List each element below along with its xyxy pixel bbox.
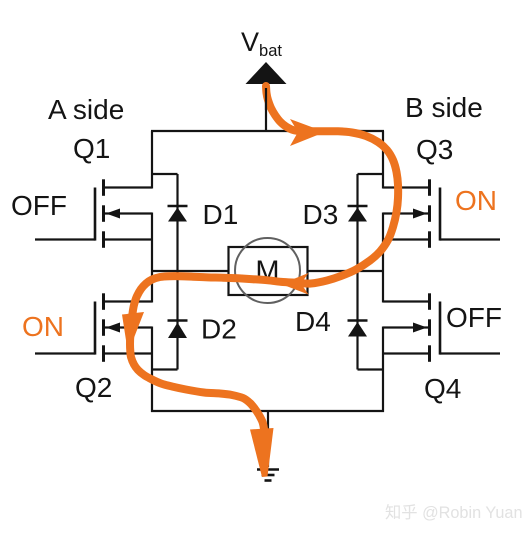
- svg-text:ON: ON: [455, 185, 497, 216]
- diode D2: [168, 321, 188, 339]
- wire: mid rail left (motor left lead): [151, 270, 229, 272]
- svg-text:ON: ON: [22, 311, 64, 342]
- wire: D1 top tee: [152, 173, 178, 175]
- wire: D1 branch vertical: [176, 174, 178, 272]
- svg-text:D2: D2: [201, 314, 237, 345]
- transistor Q3: [383, 179, 500, 248]
- svg-text:OFF: OFF: [446, 302, 502, 333]
- wire: D3 top tee: [358, 173, 384, 175]
- transistor Q2: [35, 293, 152, 362]
- node: current arrowhead on top rail: [290, 119, 325, 146]
- motor M box: [229, 247, 308, 295]
- wire: D4 bottom tee: [358, 368, 384, 370]
- wire: right vertical Q4 source to bottom rail: [382, 327, 384, 413]
- wire: D2 bottom tee: [152, 368, 178, 370]
- wire: right vertical Q3 drain: [382, 131, 384, 189]
- svg-text:OFF: OFF: [11, 190, 67, 221]
- motor M circle: [235, 238, 300, 303]
- wire: Vbat stem overlay: [265, 88, 267, 110]
- svg-text:D3: D3: [303, 199, 339, 230]
- svg-text:Q3: Q3: [416, 134, 453, 165]
- wire: left vertical Q2 source to bottom rail: [151, 327, 153, 413]
- svg-text:Vbat: Vbat: [241, 27, 282, 60]
- node: current arrowhead to ground: [250, 428, 274, 477]
- wire: left vertical node A (Q1 source to Q2 drain): [151, 213, 153, 303]
- wire: mid rail right (motor right lead): [307, 270, 384, 272]
- svg-text:Q2: Q2: [75, 372, 112, 403]
- wire: D2 branch vertical: [176, 271, 178, 370]
- diode D4: [348, 321, 368, 337]
- transistor Q4: [383, 293, 500, 362]
- wire: D3 branch vertical: [356, 174, 358, 272]
- wire: Vbat stem: [265, 83, 267, 131]
- svg-text:知乎 @Robin Yuan: 知乎 @Robin Yuan: [385, 504, 523, 522]
- svg-text:Q1: Q1: [73, 133, 110, 164]
- svg-text:D1: D1: [203, 199, 239, 230]
- wire: D4 branch vertical: [356, 271, 358, 370]
- svg-text:A side: A side: [48, 94, 124, 125]
- diode D3: [348, 206, 368, 222]
- transistor Q1: [35, 179, 152, 248]
- svg-text:D4: D4: [295, 306, 331, 337]
- node: current arrowhead into motor: [281, 273, 309, 295]
- wire: top rail: [151, 130, 384, 132]
- node: current arrowhead through Q2: [122, 312, 144, 349]
- svg-text:B side: B side: [405, 92, 483, 123]
- svg-text:Q4: Q4: [424, 373, 461, 404]
- wire: ground stem: [267, 411, 269, 467]
- wire: orange current path: [130, 86, 398, 434]
- power symbol Vbat arrow: [246, 62, 287, 84]
- wire: right vertical node B (Q3 source to Q4 drain): [382, 213, 384, 303]
- wire: left vertical Q1 drain: [151, 131, 153, 189]
- diode D1: [168, 206, 188, 222]
- ground: [257, 470, 279, 481]
- wire: bottom rail: [151, 410, 384, 412]
